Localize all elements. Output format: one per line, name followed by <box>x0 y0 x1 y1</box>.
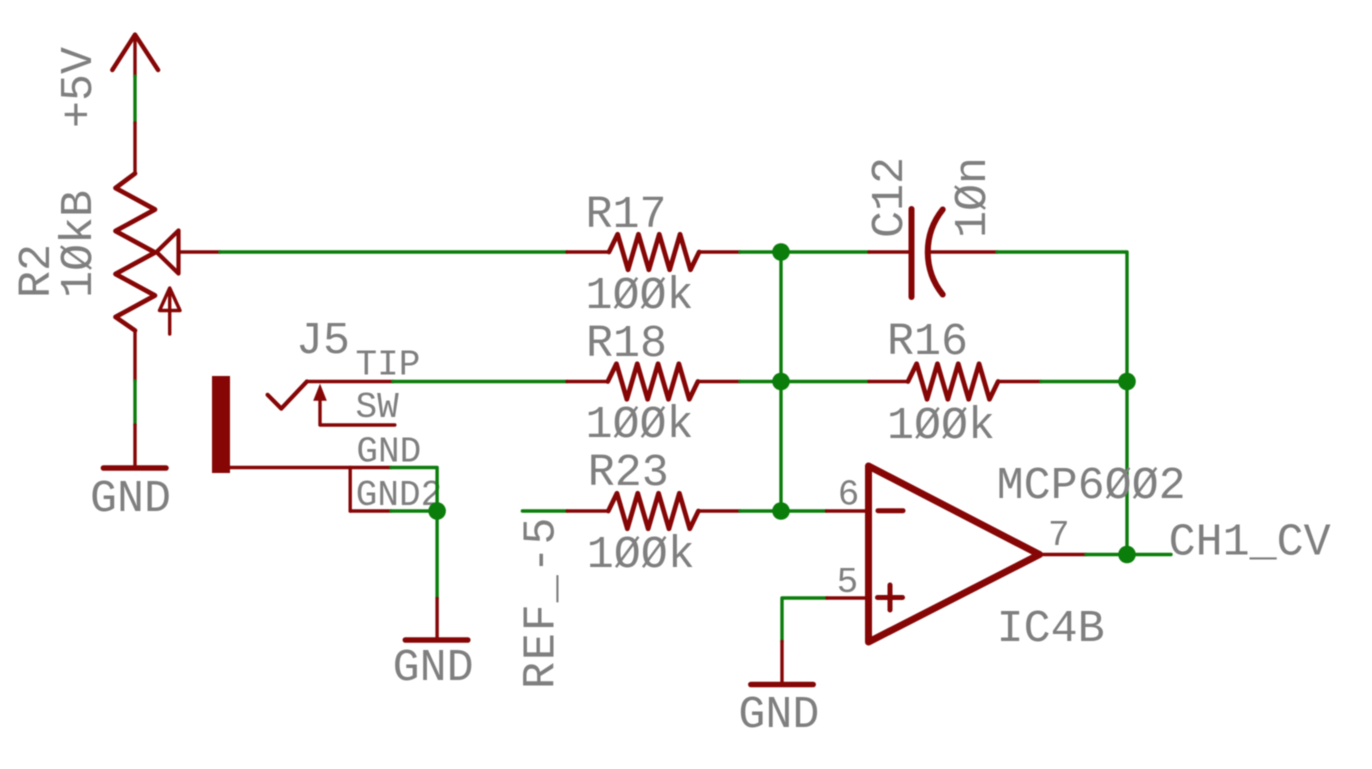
wire REF_-5 to R23 <box>522 509 567 512</box>
node junction row2 right <box>1118 373 1136 391</box>
resistor R23 <box>567 493 740 529</box>
ground GND (pot) <box>103 425 166 468</box>
vertical bus right <box>1125 382 1128 555</box>
svg-text:GND: GND <box>393 643 474 694</box>
svg-text:1ØØk: 1ØØk <box>586 271 694 322</box>
resistor R17 <box>567 234 740 270</box>
ground GND (jack) <box>405 599 468 641</box>
svg-text:GND: GND <box>738 690 819 741</box>
svg-text:GND: GND <box>90 474 171 525</box>
node junction output <box>1118 546 1136 564</box>
supply +5V symbol <box>112 35 158 77</box>
svg-text:SW: SW <box>356 387 400 428</box>
vertical bus left <box>779 252 782 511</box>
svg-text:REF_-5: REF_-5 <box>517 516 568 689</box>
node junction R17/C12 <box>772 243 790 261</box>
wire R17 to C12 <box>740 250 869 253</box>
wire TIP to R18 <box>393 380 567 383</box>
wire pin5 to GND <box>782 598 827 642</box>
svg-text:1ØØk: 1ØØk <box>586 400 694 451</box>
wire +5V to R2 <box>133 76 136 123</box>
wire jack GND to junction <box>391 468 437 512</box>
svg-text:IC4B: IC4B <box>997 604 1105 655</box>
svg-text:MCP6ØØ2: MCP6ØØ2 <box>997 461 1186 512</box>
ground GND (op-amp) <box>751 642 813 685</box>
wire C12 to right bus <box>997 252 1127 382</box>
svg-text:1ØkB: 1ØkB <box>54 190 105 298</box>
svg-text:1ØØk: 1ØØk <box>587 530 695 581</box>
wire R2 bottom to GND <box>133 381 136 425</box>
op-amp IC4B <box>869 466 1040 642</box>
svg-text:R17: R17 <box>586 190 667 241</box>
pin 7 output stub <box>1040 553 1087 556</box>
wire wiper to R17 <box>220 250 567 253</box>
svg-text:1ØØk: 1ØØk <box>887 401 995 452</box>
pin 5 stub <box>827 596 869 599</box>
node junction row3 <box>772 502 790 520</box>
jack J5 <box>212 376 395 511</box>
svg-text:1Øn: 1Øn <box>948 157 999 238</box>
potentiometer R2 <box>116 123 221 381</box>
resistor R16 <box>869 364 1041 400</box>
pin 6 stub <box>827 509 869 512</box>
node junction GND2 <box>428 502 446 520</box>
svg-text:5: 5 <box>837 562 859 603</box>
wire R16 to right bus <box>1041 380 1127 383</box>
svg-text:R18: R18 <box>586 319 667 370</box>
wire jack GND2 to junction <box>391 509 437 512</box>
resistor R18 <box>567 364 740 400</box>
wire R18 to bus <box>740 380 869 383</box>
svg-text:TIP: TIP <box>356 345 421 386</box>
wire junction down <box>435 511 438 599</box>
svg-text:C12: C12 <box>865 157 916 238</box>
svg-text:6: 6 <box>838 475 860 516</box>
capacitor C12 <box>869 209 997 297</box>
svg-text:7: 7 <box>1048 515 1070 556</box>
svg-text:+5V: +5V <box>54 47 105 128</box>
svg-text:J5: J5 <box>296 316 350 367</box>
node junction row2 left <box>772 373 790 391</box>
svg-text:R23: R23 <box>588 448 669 499</box>
svg-text:CH1_CV: CH1_CV <box>1169 518 1331 569</box>
wire R23 to op-amp pin6 <box>740 509 827 512</box>
svg-text:R16: R16 <box>887 317 968 368</box>
wire output to CH1_CV <box>1086 553 1171 556</box>
